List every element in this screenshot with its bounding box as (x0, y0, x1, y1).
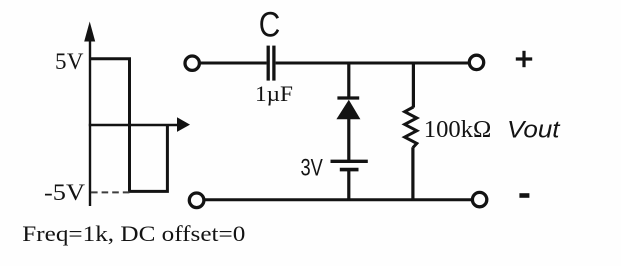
waveform horizontal axis (89, 124, 179, 127)
square wave trace (90, 59, 167, 192)
svg-text:Freq=1k, DC offset=0: Freq=1k, DC offset=0 (22, 221, 245, 246)
capacitor C1 left plate (267, 46, 270, 81)
terminal bottom-right (472, 192, 486, 206)
wire diode branch upper (347, 62, 350, 100)
svg-text:100kΩ: 100kΩ (424, 117, 492, 143)
waveform vertical axis (89, 38, 91, 206)
diode D1 cathode bar (337, 96, 359, 99)
svg-text:Vout: Vout (507, 116, 561, 143)
waveform horizontal axis arrowhead (177, 117, 190, 132)
diode D1 triangle (336, 100, 360, 119)
wire resistor to bottom (411, 147, 414, 201)
battery 3V long plate (331, 160, 368, 163)
resistor R1 zigzag (405, 107, 417, 148)
capacitor C1 right plate (272, 46, 275, 81)
label plus (516, 51, 532, 67)
wire resistor branch upper (412, 62, 415, 108)
wire top (capacitor to right terminal) (276, 62, 469, 65)
wire bottom (204, 198, 472, 201)
wire top-left (terminal to capacitor) (201, 62, 267, 65)
terminal bottom-left (189, 193, 204, 208)
dashed -5V level line (91, 191, 133, 193)
wire battery to bottom (347, 171, 350, 201)
svg-text:-5V: -5V (44, 180, 85, 205)
label minus (519, 193, 529, 198)
svg-text:C: C (259, 5, 281, 44)
terminal top-right (469, 55, 483, 69)
terminal top-left (185, 56, 199, 70)
battery 3V short plate (340, 168, 359, 172)
svg-text:3V: 3V (301, 155, 323, 182)
wire diode to battery (347, 118, 350, 161)
svg-text:1µF: 1µF (255, 81, 293, 106)
waveform vertical axis arrowhead (84, 22, 95, 42)
svg-text:5V: 5V (55, 49, 84, 74)
